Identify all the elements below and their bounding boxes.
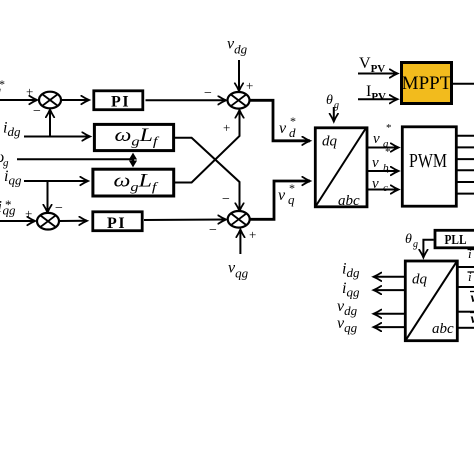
wire vqg output from T2 (arrow left) [374, 326, 405, 328]
node i*qg (label cut at left edge) [0, 197, 16, 218]
svg-text:MPPT: MPPT [402, 73, 452, 94]
wire vdg output from T2 (arrow left) [374, 313, 405, 315]
svg-text:*: * [0, 77, 5, 91]
svg-text:v: v [279, 120, 287, 137]
svg-text:c: c [383, 182, 388, 194]
svg-text:*: * [385, 167, 391, 179]
svg-text:PWM: PWM [409, 150, 447, 172]
PWM block [402, 127, 456, 206]
double-headed arrow wg into B1 and B2 [129, 153, 137, 168]
svg-text:i: i [468, 269, 472, 284]
svg-text:+: + [25, 206, 32, 221]
summing junction S1 [39, 92, 61, 109]
wire iqg branch down into S2 [47, 181, 49, 213]
wire S1 to PI1 [61, 99, 89, 101]
node theta-g label (top) [326, 93, 339, 111]
node theta-g label (PLL) [405, 232, 418, 250]
PLL block [435, 230, 474, 248]
wire iqg output from T2 (arrow left) [374, 289, 405, 291]
wire S3 output v*d into dq/abc block T1 [250, 100, 311, 141]
wire vqg up into S4 [239, 230, 241, 255]
node i-vector label 2 (cut) [468, 269, 474, 284]
svg-text:dq: dq [322, 134, 338, 150]
wire PLL output into T2 [423, 240, 433, 258]
svg-text:+: + [246, 78, 253, 93]
svg-text:abc: abc [432, 321, 454, 337]
svg-text:θ: θ [326, 93, 333, 108]
wire i-abc input into T2 (from right edge) [458, 266, 474, 268]
node i-vector label 1 (cut) [468, 246, 474, 261]
wire VPV into MPPT [358, 73, 398, 75]
svg-text:+: + [26, 84, 33, 99]
svg-text:v: v [372, 155, 379, 171]
svg-text:i: i [468, 246, 472, 261]
wire v*a from T1 to PWM [367, 147, 399, 149]
wire PI2 output to summing junction S4 [144, 219, 226, 222]
svg-text:+: + [249, 227, 256, 242]
svg-text:−: − [33, 104, 41, 119]
svg-text:d: d [289, 125, 296, 140]
summing junction S4 [228, 211, 250, 228]
svg-text:−: − [222, 192, 230, 207]
summing junction S2 [37, 213, 59, 230]
MPPT block [402, 63, 452, 104]
cross-coupling block B2 (wg Lf) [93, 169, 174, 196]
svg-text:−: − [204, 86, 212, 101]
PI controller PI2 [93, 212, 142, 232]
dq/abc transform block T1 [315, 128, 367, 209]
svg-text:PI: PI [111, 94, 130, 111]
node i*dg (label cut at left edge) [0, 77, 5, 97]
svg-text:PI: PI [107, 215, 126, 232]
svg-text:v: v [373, 131, 380, 147]
summing junction S3 [228, 92, 250, 109]
wire B1 output cross-coupled down into S4 [175, 138, 240, 211]
abc/dq transform block T2 [405, 261, 457, 341]
node v*a label [373, 122, 392, 150]
svg-text:−: − [209, 223, 217, 238]
wire B2 output cross-coupled up into S3 [175, 110, 240, 183]
node v*q label [278, 181, 295, 207]
svg-text:v: v [471, 312, 474, 327]
wire idg into wgLf block B1 [24, 136, 90, 138]
svg-text:q: q [288, 192, 295, 207]
wire idg branch up into S1 [49, 110, 51, 137]
svg-text:g: g [413, 239, 418, 250]
svg-text:v: v [372, 176, 379, 192]
wire v*c from T1 to PWM [367, 189, 399, 191]
wire MPPT output [453, 83, 474, 85]
svg-text:v: v [278, 187, 286, 204]
cross-coupling block B1 (wg Lf) [94, 124, 173, 150]
svg-text:*: * [385, 146, 391, 158]
wire S2 to PI2 [59, 220, 87, 222]
svg-text:PLL: PLL [445, 233, 467, 248]
svg-text:θ: θ [405, 232, 412, 247]
node v-vector label 1 (cut) [470, 291, 474, 306]
wire theta-g into T1 [333, 107, 335, 122]
wire wg [17, 158, 133, 160]
node v-vector label 2 (cut) [470, 312, 474, 327]
svg-text:dq: dq [412, 272, 428, 288]
svg-text:*: * [386, 122, 392, 134]
node v*c label [372, 167, 391, 194]
wire i*qg into summing junction S2 [0, 220, 35, 222]
wire S4 output v*q into dq/abc block T1 [250, 181, 310, 219]
svg-text:+: + [223, 120, 230, 135]
wire PI1 output to summing junction S3 [146, 99, 227, 101]
node wg (label cut at left edge) [0, 149, 9, 169]
svg-text:−: − [55, 201, 63, 216]
wire idg output from T2 (arrow left) [374, 276, 405, 278]
wire iqg into wgLf block B2 [24, 180, 88, 182]
wire i-abc input 2 into T2 [458, 286, 474, 288]
wire IPV into MPPT [358, 98, 398, 100]
svg-text:v: v [471, 291, 474, 306]
node v*d label [279, 114, 296, 140]
PI controller PI1 [94, 91, 143, 111]
wire v-abc input 2 into T2 [458, 327, 474, 329]
svg-text:abc: abc [338, 193, 360, 209]
svg-text:qg: qg [3, 203, 17, 218]
wire v*b from T1 to PWM [367, 170, 399, 172]
wire vdg down into S3 [238, 60, 240, 91]
wire i*dg into summing junction S1 [0, 99, 37, 101]
node v*b label [372, 146, 391, 174]
wire v-abc input into T2 [458, 311, 474, 313]
PWM gate output wires (6) [457, 136, 474, 194]
